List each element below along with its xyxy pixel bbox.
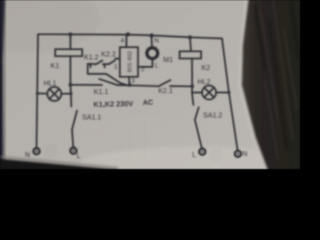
svg-text:K1.1: K1.1	[94, 88, 109, 96]
svg-text:3: 3	[131, 78, 135, 85]
svg-text:SA1.1: SA1.1	[82, 114, 101, 122]
svg-text:4: 4	[121, 38, 125, 45]
svg-text:K1,K2 230V: K1,K2 230V	[93, 99, 133, 109]
svg-text:BIS 402: BIS 402	[127, 51, 133, 72]
svg-text:K1: K1	[51, 61, 60, 70]
svg-text:L: L	[77, 153, 81, 160]
svg-text:SA1.2: SA1.2	[203, 112, 222, 120]
svg-text:M1: M1	[163, 57, 173, 64]
svg-text:HL1: HL1	[44, 80, 57, 87]
svg-text:K2.1: K2.1	[158, 87, 173, 95]
svg-text:K2.2: K2.2	[101, 50, 116, 58]
svg-text:N: N	[154, 38, 159, 45]
svg-text:2: 2	[141, 66, 145, 73]
svg-text:N: N	[242, 151, 247, 158]
svg-text:K2: K2	[201, 63, 210, 72]
svg-text:1: 1	[114, 63, 118, 70]
svg-text:K1.2: K1.2	[84, 53, 99, 61]
svg-text:AC: AC	[143, 98, 154, 107]
svg-text:HL2: HL2	[198, 79, 211, 86]
svg-text:L: L	[155, 63, 159, 70]
svg-text:L: L	[192, 152, 196, 159]
